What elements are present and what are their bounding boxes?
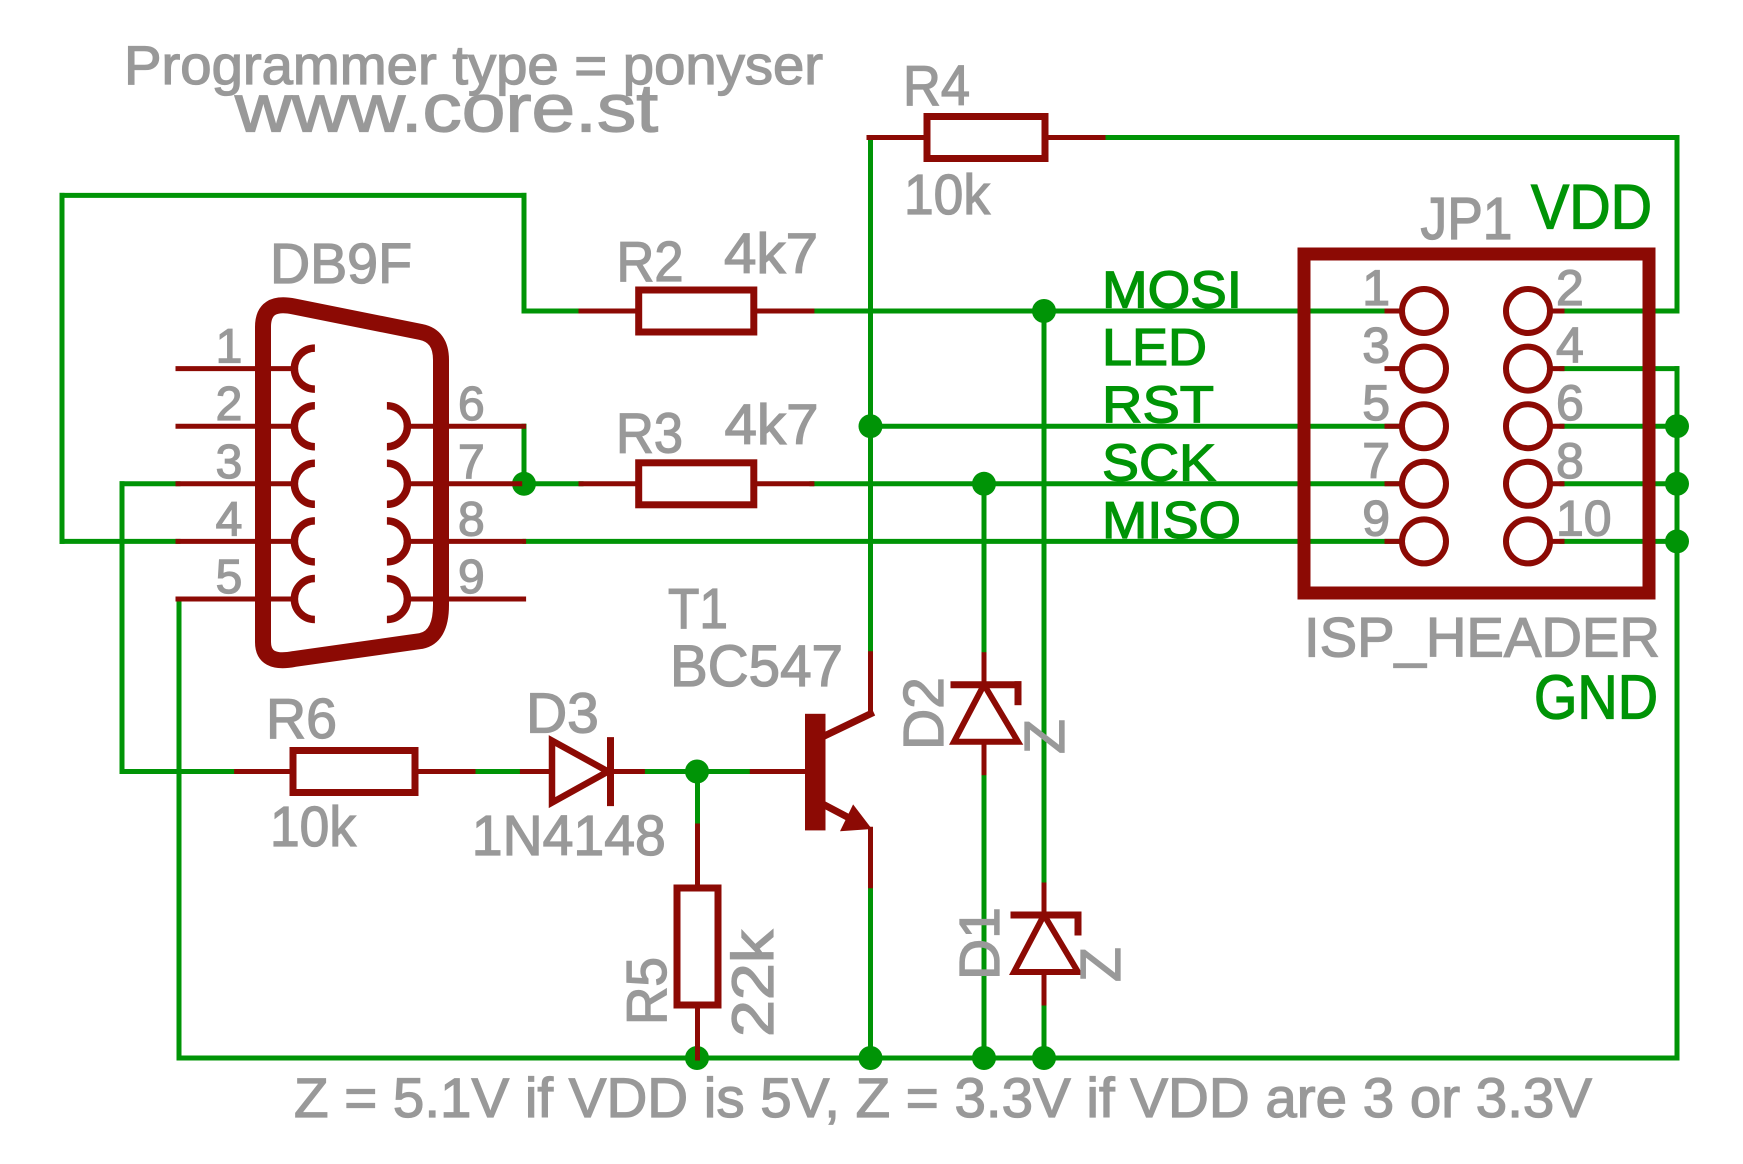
svg-text:6: 6 [1556, 375, 1584, 431]
svg-text:MOSI: MOSI [1102, 262, 1242, 320]
svg-text:D2: D2 [892, 677, 956, 750]
svg-text:RST: RST [1102, 377, 1214, 435]
svg-text:3: 3 [1362, 318, 1390, 374]
svg-text:GND: GND [1534, 664, 1658, 733]
svg-text:4: 4 [1556, 318, 1584, 374]
svg-text:D3: D3 [526, 681, 599, 745]
svg-text:7: 7 [458, 436, 485, 489]
svg-text:5: 5 [1362, 375, 1390, 431]
svg-text:9: 9 [1362, 490, 1390, 546]
svg-text:1: 1 [1362, 260, 1390, 316]
svg-text:5: 5 [216, 551, 243, 604]
svg-text:7: 7 [1362, 433, 1390, 489]
svg-text:10: 10 [1556, 490, 1612, 546]
svg-text:LED: LED [1102, 319, 1207, 377]
svg-text:VDD: VDD [1531, 173, 1652, 243]
svg-text:8: 8 [458, 493, 485, 546]
svg-text:D1: D1 [948, 907, 1012, 980]
svg-text:10k: 10k [904, 163, 990, 227]
svg-text:R3: R3 [616, 402, 683, 466]
svg-text:DB9F: DB9F [270, 232, 412, 296]
svg-text:2: 2 [216, 378, 243, 431]
svg-text:R6: R6 [266, 687, 337, 751]
svg-text:10k: 10k [270, 795, 356, 859]
svg-text:Z = 5.1V if VDD is 5V, Z = 3.3: Z = 5.1V if VDD is 5V, Z = 3.3V if VDD a… [294, 1066, 1593, 1129]
svg-text:1N4148: 1N4148 [472, 804, 666, 868]
svg-text:BC547: BC547 [670, 634, 843, 699]
svg-text:2: 2 [1556, 260, 1584, 316]
svg-text:4k7: 4k7 [725, 393, 819, 457]
svg-text:9: 9 [458, 551, 485, 604]
svg-text:www.core.st: www.core.st [234, 71, 658, 147]
svg-text:3: 3 [216, 436, 243, 489]
svg-text:T1: T1 [668, 577, 728, 641]
svg-text:R4: R4 [903, 54, 970, 118]
svg-text:R2: R2 [617, 230, 684, 294]
svg-text:R5: R5 [615, 957, 679, 1025]
svg-text:Z: Z [1069, 947, 1133, 982]
svg-text:ISP_HEADER: ISP_HEADER [1304, 606, 1660, 669]
svg-text:JP1: JP1 [1421, 186, 1513, 252]
svg-text:22k: 22k [721, 929, 786, 1037]
svg-text:Z: Z [1013, 719, 1077, 754]
svg-text:SCK: SCK [1102, 434, 1216, 492]
svg-text:MISO: MISO [1102, 492, 1241, 550]
svg-text:4k7: 4k7 [724, 222, 818, 286]
svg-text:8: 8 [1556, 433, 1584, 489]
svg-text:4: 4 [216, 493, 243, 546]
svg-text:6: 6 [458, 378, 485, 431]
svg-text:1: 1 [216, 321, 243, 374]
